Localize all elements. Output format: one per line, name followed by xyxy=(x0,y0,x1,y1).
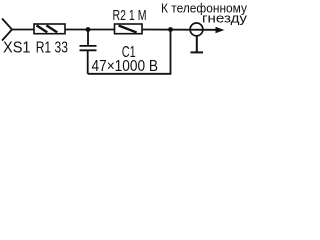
resistor R2 xyxy=(115,24,143,34)
svg-text:R1 33: R1 33 xyxy=(36,39,68,56)
node A junction dot xyxy=(86,27,91,32)
wire XS1 to R1 xyxy=(12,29,34,31)
wire bottom return (C1 bottom to node B riser) xyxy=(88,30,171,74)
svg-text:XS1: XS1 xyxy=(3,39,31,56)
terminal: jack circle xyxy=(190,23,203,36)
resistor R1 xyxy=(34,24,65,34)
capacitor C1 xyxy=(80,30,97,74)
chassis bar under jack xyxy=(191,36,204,53)
wire R1 to R2 xyxy=(65,29,115,31)
svg-text:гнезду: гнезду xyxy=(202,11,248,26)
svg-text:R2 1 М: R2 1 М xyxy=(113,7,147,24)
arrowhead to telephone jack xyxy=(216,27,225,33)
wire R2 to output arrow xyxy=(142,29,217,31)
node B junction dot xyxy=(168,27,173,32)
svg-text:47×1000 В: 47×1000 В xyxy=(92,58,159,75)
connector XS1 (probe plug symbol) xyxy=(3,19,13,40)
